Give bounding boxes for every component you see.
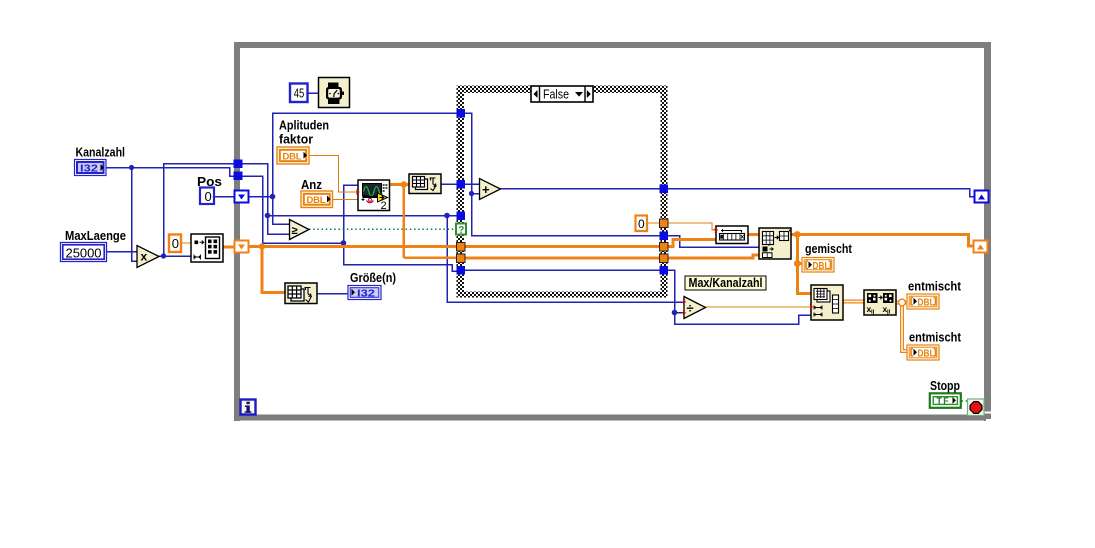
svg-text:÷: ÷ xyxy=(687,300,694,315)
svg-text:entmischt: entmischt xyxy=(908,279,962,294)
svg-text:+: + xyxy=(482,182,490,197)
svg-text:DBL: DBL xyxy=(918,297,935,308)
svg-text:Pos: Pos xyxy=(197,174,222,189)
svg-text:entmischt: entmischt xyxy=(909,330,962,345)
svg-text:faktor: faktor xyxy=(279,132,313,147)
svg-text:Kanalzahl: Kanalzahl xyxy=(76,145,126,160)
svg-text:ji: ji xyxy=(886,310,891,316)
svg-text:0: 0 xyxy=(205,189,212,204)
svg-text:gemischt: gemischt xyxy=(805,241,853,256)
svg-text:I32: I32 xyxy=(357,288,376,299)
svg-text:45: 45 xyxy=(294,87,305,101)
svg-text:I32: I32 xyxy=(80,163,98,175)
svg-text:TF: TF xyxy=(937,396,951,407)
svg-text:MaxLaenge: MaxLaenge xyxy=(65,228,126,243)
svg-text:False: False xyxy=(543,87,569,101)
svg-text:2: 2 xyxy=(381,200,387,212)
svg-text:ij: ij xyxy=(871,310,875,316)
svg-text:Aplituden: Aplituden xyxy=(279,118,329,133)
svg-text:?: ? xyxy=(458,225,464,236)
svg-text:Größe(n): Größe(n) xyxy=(350,270,396,285)
svg-text:DBL: DBL xyxy=(307,195,326,206)
svg-text:Max/Kanalzahl: Max/Kanalzahl xyxy=(689,276,763,290)
svg-text:Anz: Anz xyxy=(301,177,322,192)
svg-text:0: 0 xyxy=(638,217,645,231)
svg-text:25000: 25000 xyxy=(66,246,102,261)
svg-text:0: 0 xyxy=(172,236,179,251)
svg-text:≥: ≥ xyxy=(292,225,298,237)
svg-text:DBL: DBL xyxy=(918,348,935,359)
svg-text:Stopp: Stopp xyxy=(930,378,960,393)
svg-text:DBL: DBL xyxy=(283,151,302,162)
svg-text:x: x xyxy=(141,250,148,264)
svg-text:DBL: DBL xyxy=(813,261,830,272)
